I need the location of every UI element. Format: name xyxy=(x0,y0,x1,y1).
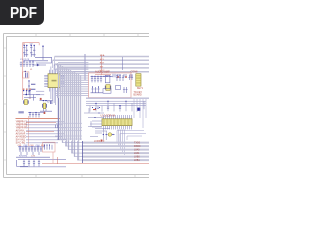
small parts on bus right xyxy=(113,74,132,78)
U1 right pins xyxy=(60,75,64,86)
red mark below xyxy=(101,140,103,142)
mid nest component xyxy=(56,125,58,128)
sdram feed red marks xyxy=(93,109,96,110)
comp rect in group xyxy=(116,86,121,90)
U3 top pins xyxy=(104,115,132,119)
U3 label red xyxy=(101,114,115,117)
CN1 bottom labels red xyxy=(134,88,144,97)
svg-text:X1: X1 xyxy=(29,98,32,100)
net label red xyxy=(44,112,46,114)
wire node tuner output xyxy=(35,46,52,63)
keypad box drop pink xyxy=(52,152,54,163)
U1 top pin risers xyxy=(51,63,57,70)
right-side caps in group xyxy=(116,75,128,93)
sheet border inner frame xyxy=(7,37,150,175)
crystal Y2 round xyxy=(108,133,112,137)
group top rail xyxy=(91,75,113,77)
U1 left wires xyxy=(36,91,44,95)
tuner group box (pink outline) xyxy=(23,43,40,100)
keypad dots xyxy=(44,144,50,145)
mid nest horizontals xyxy=(55,123,82,139)
U1 bottom pins xyxy=(49,88,59,92)
crystal X2 wire dots xyxy=(43,100,47,101)
junction dot xyxy=(42,46,43,47)
svg-text:AV-VIDEO: AV-VIDEO xyxy=(16,136,27,139)
svg-text:R71 R72: R71 R72 xyxy=(19,156,28,158)
svg-text:RST: RST xyxy=(100,63,105,65)
capacitor row junction dots xyxy=(23,60,33,61)
left vertical supply wire xyxy=(28,80,30,95)
capacitor row C1-C5 xyxy=(20,62,34,68)
crystal X1 xyxy=(24,100,29,105)
U1 bottom pin drops xyxy=(51,92,57,106)
test point label TP1 xyxy=(18,111,23,113)
svg-text:SV-Y-IN1: SV-Y-IN1 xyxy=(16,140,26,142)
memory bus drops right xyxy=(119,129,125,155)
group title red xyxy=(95,69,110,73)
transistor Q2 junction dots xyxy=(31,45,35,46)
net wires from label stack xyxy=(26,122,66,143)
net label stack (red names) xyxy=(16,122,28,145)
svg-text:LVB1: LVB1 xyxy=(134,159,140,162)
ground caps row xyxy=(23,159,40,166)
resistor R11 xyxy=(31,84,35,89)
power indicator dark square xyxy=(137,108,140,111)
regulator U4 xyxy=(105,75,110,82)
sdram left feed wires xyxy=(84,108,104,127)
decoupling caps mid xyxy=(97,107,121,109)
svg-text:SDA: SDA xyxy=(100,54,105,57)
sheet border outer frame xyxy=(4,34,150,178)
svg-text:YPBPR-PB: YPBPR-PB xyxy=(16,125,28,127)
mid thin rails xyxy=(86,101,146,105)
audio cap bank C20-C27 xyxy=(19,147,42,152)
svg-text:YPBPR-PR: YPBPR-PR xyxy=(16,128,28,130)
small IC U5 outline xyxy=(103,89,111,94)
junction dot xyxy=(25,71,26,72)
svg-text:LVDS-TX: LVDS-TX xyxy=(94,140,105,143)
wire loop nest right xyxy=(117,131,146,147)
IF filter pink box xyxy=(22,72,29,78)
mid power rail thick xyxy=(86,97,149,99)
wire tuner bottom rail xyxy=(25,60,49,62)
crystal X2 bottom wires xyxy=(40,109,52,112)
svg-text:AV1-IN-R: AV1-IN-R xyxy=(16,133,26,136)
AV input rail (orange) xyxy=(16,118,61,120)
U1 top pins xyxy=(49,70,59,74)
red stub bottom xyxy=(57,157,59,164)
SDRAM U3 xyxy=(102,119,132,126)
red stub wire xyxy=(95,55,111,75)
bottom bus labels red xyxy=(134,141,141,162)
svg-text:AUDIO-AMP: AUDIO-AMP xyxy=(95,69,110,73)
svg-text:KEY1: KEY1 xyxy=(137,88,144,90)
junction dots xyxy=(29,112,36,113)
transistor Q1 junction dots xyxy=(24,45,28,46)
crystal X2 top wire xyxy=(40,100,53,102)
svg-text:U12-SDRAM: U12-SDRAM xyxy=(101,114,115,117)
bus drop verticals xyxy=(84,54,85,80)
caps C30-C33 xyxy=(91,76,102,82)
vertical data bus bands xyxy=(59,64,81,160)
CN1 side parts xyxy=(128,75,133,80)
test point row wire xyxy=(28,113,44,118)
junction dots under labels xyxy=(23,90,31,91)
right column verticals xyxy=(134,99,146,128)
sdram feed dots xyxy=(92,107,100,118)
address crosshatch horizontals xyxy=(55,63,88,96)
bottom bus stub vertical xyxy=(82,141,84,163)
audio DSP group pink box xyxy=(89,73,131,98)
supply wire dots xyxy=(28,80,29,91)
red net wires xyxy=(26,123,56,132)
clock wires below U3 xyxy=(95,129,115,140)
mid dots xyxy=(95,101,126,107)
audio bank lower rails xyxy=(16,157,66,159)
IF filter element xyxy=(26,73,28,78)
svg-text:AV1-IN-L: AV1-IN-L xyxy=(16,130,26,133)
sdram support wires xyxy=(88,127,102,137)
labels red small xyxy=(117,76,127,77)
net label marks red xyxy=(23,89,31,90)
svg-text:BOARD: BOARD xyxy=(134,93,143,96)
diode D1 on wire xyxy=(33,64,46,66)
crystal X2 xyxy=(43,103,47,109)
top bus corner nest xyxy=(53,57,60,77)
group dots xyxy=(92,75,121,88)
bus jumper vertical xyxy=(121,57,123,70)
U1 part number text xyxy=(52,80,57,82)
svg-text:L1: L1 xyxy=(30,69,33,71)
svg-text:X2: X2 xyxy=(47,102,50,104)
audio cap bank top labels xyxy=(18,145,46,147)
LVDS rail pink xyxy=(42,162,149,164)
CN1 label red xyxy=(131,71,139,74)
bus net labels red xyxy=(100,54,105,72)
transistor Q1 network xyxy=(23,45,28,57)
bottom bus title red xyxy=(94,140,105,143)
svg-text:YPBPR-Y1: YPBPR-Y1 xyxy=(16,122,28,124)
lower comps in group xyxy=(91,87,104,93)
connector group pink vertical xyxy=(28,116,30,146)
clock dots xyxy=(103,134,114,135)
second comp row xyxy=(21,152,39,155)
audio cap bank rail xyxy=(18,146,45,148)
top data bus lines xyxy=(53,57,150,72)
U3 bottom pins xyxy=(104,126,132,130)
net label red xyxy=(40,98,42,100)
filter F1 yellow xyxy=(105,85,111,91)
border zone ticks xyxy=(4,33,139,178)
CPU support wire xyxy=(57,98,59,140)
AV connector CN1 xyxy=(136,74,141,86)
audio bank junction dots xyxy=(19,146,38,147)
left corner wire xyxy=(17,160,29,166)
PDF badge xyxy=(0,0,44,25)
keypad group pink box xyxy=(43,142,56,152)
group rail dots xyxy=(91,76,110,77)
wire y94.5 xyxy=(23,91,40,101)
mid rail drops xyxy=(90,101,144,111)
U1 left pins xyxy=(44,75,48,86)
mid text marks xyxy=(19,156,36,158)
tuner designator texts xyxy=(20,44,50,104)
ground rail xyxy=(20,166,66,168)
main SoC U1 xyxy=(48,74,60,88)
svg-text:CON8: CON8 xyxy=(131,71,139,74)
bottom bus corner staircase xyxy=(63,141,83,160)
bottom data bus lines xyxy=(83,143,149,161)
junction dot xyxy=(26,94,28,96)
transistor Q2 network xyxy=(30,45,36,57)
capacitor C10 xyxy=(50,101,52,104)
keypad resistors xyxy=(45,145,53,150)
